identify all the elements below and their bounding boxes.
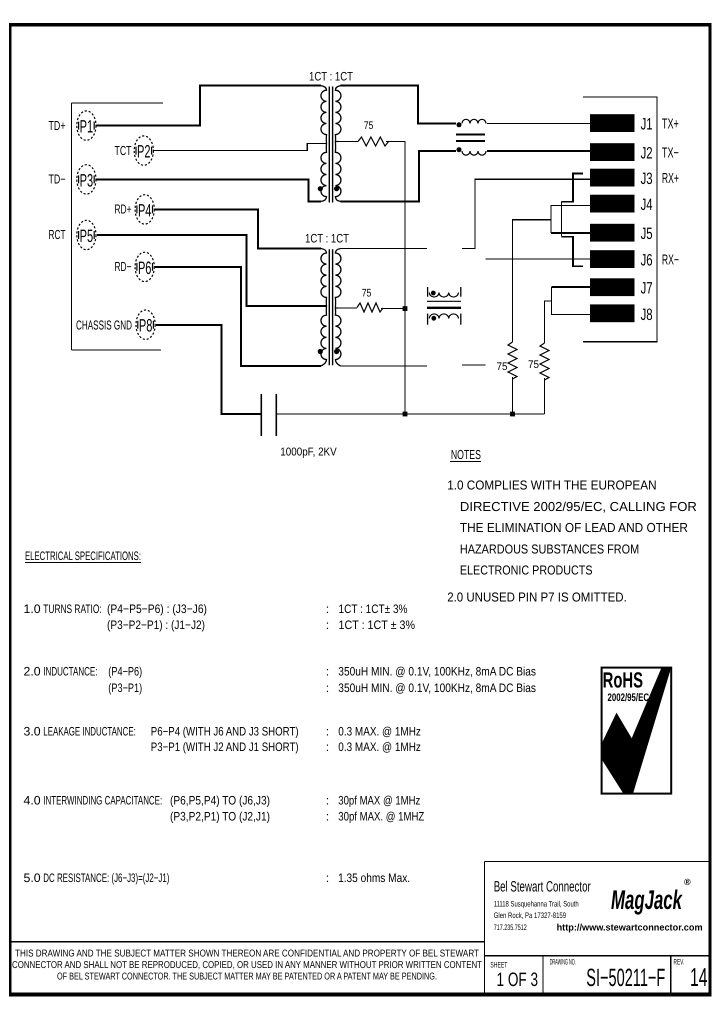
wire P6 to T2 bottom-left bbox=[155, 267, 321, 366]
T2 right tap lead bbox=[335, 307, 338, 309]
pin J2 pad bbox=[590, 143, 635, 161]
node junction bus at R3 bbox=[510, 412, 515, 417]
svg-text:NOTES: NOTES bbox=[451, 447, 481, 462]
svg-text::: : bbox=[326, 740, 329, 754]
svg-text:DC RESISTANCE: (J6−J3)=(J2−J1): DC RESISTANCE: (J6−J3)=(J2−J1) bbox=[43, 871, 169, 885]
svg-text:DIRECTIVE 2002/95/EC, CALLING: DIRECTIVE 2002/95/EC, CALLING FOR bbox=[460, 499, 697, 514]
wire T2 tap to resistor R2 bbox=[338, 307, 357, 309]
svg-text:THIS DRAWING AND THE SUBJECT M: THIS DRAWING AND THE SUBJECT MATTER SHOW… bbox=[15, 949, 479, 960]
wire P1 to T1 top-left bbox=[96, 86, 321, 126]
spec 5.0 dc resistance bbox=[24, 871, 411, 885]
svg-text:RX+: RX+ bbox=[662, 171, 679, 187]
svg-text:717.235.7512: 717.235.7512 bbox=[494, 923, 527, 932]
T2 left winding bbox=[321, 249, 327, 367]
svg-text::: : bbox=[326, 664, 329, 678]
svg-text:75: 75 bbox=[364, 120, 374, 132]
svg-text:1000pF, 2KV: 1000pF, 2KV bbox=[280, 447, 337, 459]
svg-text::: : bbox=[326, 793, 329, 807]
T1 polarity dot left bbox=[318, 186, 323, 191]
capacitor C1 1000pF bbox=[261, 394, 337, 459]
wire T2 top-right lead bbox=[341, 248, 427, 250]
svg-text:P1: P1 bbox=[80, 117, 94, 137]
left pin header box bbox=[72, 103, 164, 350]
svg-text:30pf MAX @ 1MHz: 30pf MAX @ 1MHz bbox=[338, 793, 420, 807]
wire T2 secondary top to J3 bbox=[462, 179, 590, 248]
svg-text:1CT : 1CT ± 3%: 1CT : 1CT ± 3% bbox=[339, 618, 416, 632]
wire P3 to T1 bottom-left bbox=[96, 179, 321, 201]
svg-text:J8: J8 bbox=[641, 306, 653, 324]
svg-text:P8: P8 bbox=[139, 316, 153, 336]
svg-text:P3−P1 (WITH J2 AND J1 SHORT): P3−P1 (WITH J2 AND J1 SHORT) bbox=[151, 740, 299, 754]
pin P8 bbox=[136, 310, 155, 339]
svg-text:1.0 COMPLIES WITH THE EUROPEAN: 1.0 COMPLIES WITH THE EUROPEAN bbox=[447, 478, 656, 493]
resistor R2 75 ohm bbox=[357, 288, 383, 313]
svg-text::: : bbox=[326, 602, 329, 616]
T2 core bbox=[329, 249, 332, 365]
svg-text:®: ® bbox=[684, 877, 691, 887]
svg-text:1CT : 1CT: 1CT : 1CT bbox=[305, 232, 349, 246]
svg-text:http://www.stewartconnector.co: http://www.stewartconnector.com bbox=[557, 923, 703, 934]
svg-text:1 OF 3: 1 OF 3 bbox=[497, 969, 539, 991]
wire T1 top-right to choke L1 to J1 bbox=[341, 86, 457, 124]
svg-text:J5: J5 bbox=[641, 225, 653, 243]
svg-text:P6: P6 bbox=[138, 258, 152, 278]
T1 right tap lead bbox=[335, 141, 338, 143]
node junction bus at vertical bus bbox=[403, 412, 408, 417]
svg-text:RoHS: RoHS bbox=[603, 668, 644, 693]
pin P4 bbox=[135, 195, 154, 224]
T2 polarity dot left bbox=[318, 349, 323, 354]
svg-text::: : bbox=[326, 810, 329, 824]
transformer T1 bbox=[309, 69, 353, 202]
svg-text:J3: J3 bbox=[641, 170, 653, 188]
wire R1 to ground bus vertical bbox=[386, 142, 405, 415]
svg-text:TX+: TX+ bbox=[662, 116, 679, 132]
svg-text:DRAWING NO.: DRAWING NO. bbox=[550, 958, 576, 967]
svg-text:4.0: 4.0 bbox=[24, 793, 41, 807]
common mode choke L1 bbox=[456, 119, 486, 155]
svg-text:TD+: TD+ bbox=[49, 118, 66, 133]
svg-text:CONNECTOR AND SHALL NOT BE REP: CONNECTOR AND SHALL NOT BE REPRODUCED, C… bbox=[12, 960, 482, 971]
svg-text:(P3,P2,P1) TO (J2,J1): (P3,P2,P1) TO (J2,J1) bbox=[170, 810, 270, 824]
ground bus wire bbox=[276, 413, 544, 415]
svg-text:RD+: RD+ bbox=[115, 202, 132, 217]
svg-text:0.3 MAX. @ 1MHz: 0.3 MAX. @ 1MHz bbox=[338, 725, 421, 739]
svg-text:TCT: TCT bbox=[115, 143, 132, 158]
disclaimer text bbox=[12, 949, 482, 983]
svg-text:REV.: REV. bbox=[674, 958, 685, 967]
pin P5 bbox=[77, 220, 96, 249]
wire J3 short bracket bbox=[561, 174, 583, 202]
wire J3-J6 bracket middle bbox=[560, 202, 562, 237]
svg-text:2002/95/EC: 2002/95/EC bbox=[608, 692, 650, 704]
spec 1.0 turns ratio bbox=[24, 602, 416, 632]
wire T2 bottom-right lead bbox=[341, 365, 428, 367]
pin P2 bbox=[134, 136, 153, 165]
svg-text:1.35 ohms Max.: 1.35 ohms Max. bbox=[338, 871, 410, 885]
svg-text::: : bbox=[326, 618, 329, 632]
common mode choke L2 (floating symbol) bbox=[427, 287, 461, 325]
pin J3 pad bbox=[590, 169, 635, 187]
wire P2 to T1 center tap bbox=[154, 144, 327, 151]
wire J4 to tie point bbox=[551, 205, 590, 233]
svg-text:J4: J4 bbox=[641, 196, 653, 214]
svg-text::: : bbox=[326, 871, 329, 885]
pin P6 bbox=[135, 252, 154, 281]
wire J6 short bracket bbox=[561, 237, 583, 267]
pin J5 pad bbox=[590, 224, 635, 242]
svg-text:75: 75 bbox=[497, 361, 508, 373]
wire J4/J5 tie to resistor R3 bbox=[513, 220, 552, 342]
svg-text:J6: J6 bbox=[641, 252, 653, 270]
svg-text:350uH MIN. @ 0.1V, 100KHz, 8mA: 350uH MIN. @ 0.1V, 100KHz, 8mA DC Bias bbox=[338, 664, 536, 678]
svg-text:INDUCTANCE:: INDUCTANCE: bbox=[43, 664, 97, 678]
svg-text:OF BEL STEWART CONNECTOR. THE: OF BEL STEWART CONNECTOR. THE SUBJECT MA… bbox=[57, 972, 437, 983]
svg-text:2.0: 2.0 bbox=[24, 664, 41, 678]
svg-text:14: 14 bbox=[690, 962, 708, 992]
wire P5 to T2 center tap bbox=[97, 235, 327, 306]
svg-text:(P3−P2−P1) : (J1−J2): (P3−P2−P1) : (J1−J2) bbox=[107, 618, 205, 632]
wire R3 to ground bus bbox=[512, 377, 514, 414]
svg-text:ELECTRICAL SPECIFICATIONS:: ELECTRICAL SPECIFICATIONS: bbox=[25, 549, 141, 563]
pin P3 bbox=[77, 165, 96, 194]
svg-text::: : bbox=[326, 681, 329, 695]
spec 2.0 inductance bbox=[24, 664, 537, 695]
T1 polarity dot right bbox=[334, 186, 339, 191]
T1 core bbox=[329, 87, 332, 203]
svg-text:5.0: 5.0 bbox=[24, 871, 41, 885]
svg-text:MagJack: MagJack bbox=[611, 885, 683, 915]
svg-text:RCT: RCT bbox=[49, 227, 66, 242]
svg-text:THE ELIMINATION OF LEAD AND OT: THE ELIMINATION OF LEAD AND OTHER bbox=[460, 520, 688, 535]
wire stub near choke L2 bottom bbox=[462, 364, 486, 366]
pin J8 pad bbox=[590, 304, 635, 322]
pin P1 bbox=[77, 111, 96, 140]
svg-text:SHEET: SHEET bbox=[490, 960, 507, 969]
svg-text:Bel Stewart Connector: Bel Stewart Connector bbox=[494, 878, 591, 895]
svg-text:HAZARDOUS SUBSTANCES FROM: HAZARDOUS SUBSTANCES FROM bbox=[460, 541, 639, 556]
wire T1 tap to resistor R1 bbox=[338, 141, 358, 143]
svg-text:2.0 UNUSED PIN P7 IS OMITTED.: 2.0 UNUSED PIN P7 IS OMITTED. bbox=[447, 590, 627, 605]
svg-text:TURNS RATIO:: TURNS RATIO: bbox=[43, 602, 101, 616]
wire P4 to T2 top-left bbox=[155, 209, 321, 248]
RoHS logo bbox=[602, 668, 672, 794]
T2 right winding bbox=[335, 249, 341, 367]
svg-text:350uH MIN. @ 0.1V, 100KHz, 8mA: 350uH MIN. @ 0.1V, 100KHz, 8mA DC Bias bbox=[338, 681, 536, 695]
T2 polarity dot right bbox=[334, 349, 339, 354]
svg-text:1CT : 1CT: 1CT : 1CT bbox=[309, 69, 353, 83]
svg-text:1.0: 1.0 bbox=[24, 602, 41, 616]
pin J7 pad bbox=[590, 278, 635, 296]
resistor R4 75 ohm vertical bbox=[528, 343, 549, 380]
svg-text:P6−P4 (WITH J6 AND J3 SHORT): P6−P4 (WITH J6 AND J3 SHORT) bbox=[151, 725, 299, 739]
svg-text:TX−: TX− bbox=[662, 145, 679, 161]
wire J7 to tie point bbox=[552, 286, 590, 288]
svg-text:CHASSIS GND: CHASSIS GND bbox=[76, 318, 132, 333]
svg-text::: : bbox=[326, 725, 329, 739]
note 1 bbox=[447, 478, 697, 605]
T1 left winding bbox=[321, 86, 327, 202]
svg-text:P4: P4 bbox=[138, 200, 152, 220]
svg-text:0.3 MAX. @ 1MHz: 0.3 MAX. @ 1MHz bbox=[338, 740, 421, 754]
wire R4 to ground bus bbox=[544, 378, 546, 414]
svg-text:P2: P2 bbox=[137, 142, 151, 162]
title block bbox=[10, 862, 710, 994]
wire T1 bottom-right to choke L1 to J2 bbox=[341, 151, 457, 201]
svg-text:TD−: TD− bbox=[49, 172, 66, 187]
spec 4.0 interwinding capacitance bbox=[24, 793, 425, 823]
connector J outline bbox=[583, 97, 657, 342]
spec 3.0 leakage inductance bbox=[24, 725, 421, 755]
svg-text:30pf MAX. @ 1MHZ: 30pf MAX. @ 1MHZ bbox=[338, 810, 424, 824]
svg-text:RX−: RX− bbox=[662, 252, 679, 268]
svg-text:(P4−P5−P6) : (J3−J6): (P4−P5−P6) : (J3−J6) bbox=[107, 602, 207, 616]
wire J7/J8 tie to resistor R4 bbox=[545, 301, 552, 343]
wire R2 to ground bus junction bbox=[381, 308, 405, 310]
pin J6 pad bbox=[590, 250, 635, 268]
svg-text:J7: J7 bbox=[641, 280, 653, 298]
schematic wires bbox=[96, 86, 590, 414]
node junction T2 tap resistor to bus bbox=[403, 306, 408, 311]
svg-text:ELECTRONIC PRODUCTS: ELECTRONIC PRODUCTS bbox=[460, 563, 593, 578]
svg-text:LEAKAGE INDUCTANCE:: LEAKAGE INDUCTANCE: bbox=[43, 725, 136, 739]
svg-text:P5: P5 bbox=[80, 226, 94, 246]
wire P8 to capacitor C1 bbox=[156, 325, 261, 414]
svg-text:(P6,P5,P4) TO (J6,J3): (P6,P5,P4) TO (J6,J3) bbox=[170, 793, 270, 807]
svg-text:75: 75 bbox=[362, 288, 372, 300]
pin J1 pad bbox=[590, 114, 635, 132]
svg-text:(P3−P1): (P3−P1) bbox=[108, 681, 142, 695]
svg-text:RD−: RD− bbox=[115, 259, 132, 274]
svg-text:3.0: 3.0 bbox=[24, 725, 41, 739]
svg-text:1CT : 1CT± 3%: 1CT : 1CT± 3% bbox=[339, 602, 408, 616]
transformer T2 bbox=[305, 232, 349, 366]
pin J4 pad bbox=[590, 195, 635, 213]
wire J6 to left bbox=[486, 258, 590, 260]
svg-text:J2: J2 bbox=[641, 145, 653, 163]
T1 right winding bbox=[335, 86, 341, 202]
svg-text:75: 75 bbox=[528, 359, 539, 371]
svg-text:Glen Rock, Pa 17327-8159: Glen Rock, Pa 17327-8159 bbox=[494, 911, 567, 920]
resistor R1 75 ohm bbox=[358, 120, 389, 146]
svg-text:SI−50211−F: SI−50211−F bbox=[586, 964, 665, 992]
svg-text:(P4−P6): (P4−P6) bbox=[108, 664, 142, 678]
svg-text:11118 Susquehanna Trail, South: 11118 Susquehanna Trail, South bbox=[494, 900, 579, 909]
svg-text:INTERWINDING CAPACITANCE:: INTERWINDING CAPACITANCE: bbox=[43, 793, 162, 807]
resistor R3 75 ohm vertical bbox=[497, 342, 518, 379]
svg-text:J1: J1 bbox=[641, 116, 653, 134]
svg-text:P3: P3 bbox=[80, 170, 94, 190]
